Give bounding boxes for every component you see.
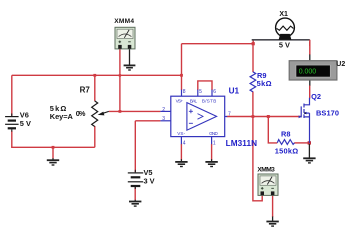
ground below op-amp pin 4 xyxy=(175,144,187,167)
wire wiper to pin2 xyxy=(109,110,161,112)
ground below XMM4 minus xyxy=(124,49,136,70)
wire U2 top black stub xyxy=(309,55,311,61)
multimeter XMM4 xyxy=(115,27,135,49)
multimeter XMM3 xyxy=(258,174,278,195)
node junction lamp branch xyxy=(252,42,255,45)
wire bottom rail xyxy=(11,146,95,148)
svg-text:3 V: 3 V xyxy=(144,176,155,185)
ground below R8 Q2 source node xyxy=(303,144,315,163)
wire staple pins 5 and 6 xyxy=(198,81,212,90)
battery V5 xyxy=(128,170,143,189)
svg-text:U2: U2 xyxy=(336,61,345,68)
wire pin8 vertical xyxy=(181,44,183,90)
op-amp U1 LM311N box xyxy=(171,96,225,136)
op-amp U1 inside pin names xyxy=(176,99,219,136)
wire R8 right to ground node xyxy=(294,142,309,144)
svg-text:GND: GND xyxy=(209,131,218,136)
wire V6 bottom vertical xyxy=(11,131,13,148)
wire V5 top vertical xyxy=(134,121,136,172)
svg-text:Q2: Q2 xyxy=(311,92,321,101)
wire R7 top vertical xyxy=(94,75,96,101)
wire R9 bottom vertical to output xyxy=(252,92,254,117)
lamp X1 xyxy=(276,18,295,40)
node junction R8 Q2 source xyxy=(308,141,311,144)
svg-text:2: 2 xyxy=(162,107,165,113)
wire V5 bottom vertical xyxy=(134,187,136,201)
potentiometer R7 wiper arrow xyxy=(98,111,109,115)
svg-text:0%: 0% xyxy=(76,109,86,118)
node junction R7 top xyxy=(93,74,96,77)
svg-text:R8: R8 xyxy=(281,129,290,138)
op-amp U1 pin stubs xyxy=(160,90,227,145)
svg-text:BS170: BS170 xyxy=(316,109,339,118)
potentiometer R7 xyxy=(92,101,98,127)
lamp rail dark xyxy=(252,39,310,41)
svg-text:Key=A: Key=A xyxy=(50,112,74,121)
svg-text:150kΩ: 150kΩ xyxy=(275,146,299,155)
svg-text:R7: R7 xyxy=(80,85,91,94)
wire U2 bottom black stub xyxy=(309,80,311,86)
svg-text:5: 5 xyxy=(199,89,202,95)
svg-text:1: 1 xyxy=(213,141,216,147)
svg-text:LM311N: LM311N xyxy=(226,139,258,148)
resistor R9 xyxy=(250,72,256,92)
transistor Q2 xyxy=(301,98,309,143)
svg-text:XMM3: XMM3 xyxy=(257,167,275,174)
svg-text:4: 4 xyxy=(183,141,186,147)
svg-text:5kΩ: 5kΩ xyxy=(257,79,272,88)
op-amp U1 pin numbers xyxy=(162,89,231,146)
wire lamp rail corner to U2 xyxy=(309,40,311,46)
wire U2 bottom to Q2 drain xyxy=(309,86,311,99)
node junction pin8 and top horizontal xyxy=(180,74,183,77)
resistor R8 xyxy=(277,140,294,145)
svg-text:B/STB: B/STB xyxy=(202,99,216,104)
ground below bottom rail xyxy=(47,158,59,165)
transistor Q2 body arrow xyxy=(304,112,307,115)
wire U2 top feed xyxy=(309,42,311,55)
wire ground stub bottom rail xyxy=(52,147,54,158)
wire R7 bottom vertical xyxy=(94,126,96,147)
svg-text:VS+: VS+ xyxy=(176,99,184,104)
ground below XMM3 minus xyxy=(266,195,278,226)
svg-text:X1: X1 xyxy=(279,11,288,18)
wire V6 top vertical xyxy=(11,75,13,116)
node junction crossing XMM4 wire xyxy=(119,74,121,76)
ground below op-amp pin 1 xyxy=(205,144,217,167)
wire R9 top vertical xyxy=(252,44,254,72)
svg-text:U1: U1 xyxy=(229,87,240,96)
node junction wiper wire xyxy=(119,110,122,113)
svg-text:8: 8 xyxy=(183,89,186,95)
svg-text:5 V: 5 V xyxy=(279,41,290,50)
wire op-amp output to gate xyxy=(227,116,301,118)
wire XMM4 plus terminal down xyxy=(119,49,121,112)
wire R8 left branch xyxy=(268,117,277,143)
svg-text:3: 3 xyxy=(162,116,165,122)
transistor Q2 body dot xyxy=(304,112,306,114)
ground below V5 xyxy=(129,200,141,206)
svg-text:XMM4: XMM4 xyxy=(114,18,134,25)
svg-text:BAL: BAL xyxy=(190,99,198,104)
node junction output R9 xyxy=(252,115,255,118)
node junction bottom rail xyxy=(52,146,55,149)
wire top rail to lamp branch xyxy=(182,43,254,45)
battery V6 xyxy=(5,114,19,132)
svg-text:0.000: 0.000 xyxy=(299,68,316,75)
svg-text:VS-: VS- xyxy=(177,131,185,136)
svg-text:6: 6 xyxy=(213,89,216,95)
svg-text:5 V: 5 V xyxy=(20,119,31,128)
node junction output R8 branch xyxy=(267,115,270,118)
wire top horizontal V6 to pin8 xyxy=(12,74,182,76)
voltmeter U2 xyxy=(289,61,337,80)
wire V5 to pin3 horizontal xyxy=(135,120,160,122)
svg-text:7: 7 xyxy=(228,111,231,117)
wire output to XMM3 vertical xyxy=(253,117,262,201)
wire stub up to lamp rail xyxy=(252,40,254,44)
transistor Q2 gate pin arrow xyxy=(299,115,302,118)
